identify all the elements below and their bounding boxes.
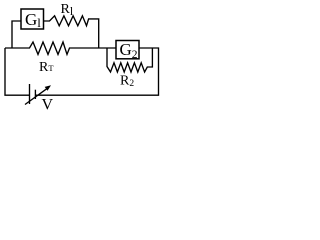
svg-text:R2: R2 <box>120 73 134 89</box>
svg-text:V: V <box>42 96 54 113</box>
svg-text:RT: RT <box>39 60 54 75</box>
svg-text:G2: G2 <box>120 40 138 61</box>
svg-text:Rl: Rl <box>61 2 74 18</box>
svg-text:Gl: Gl <box>25 10 41 30</box>
